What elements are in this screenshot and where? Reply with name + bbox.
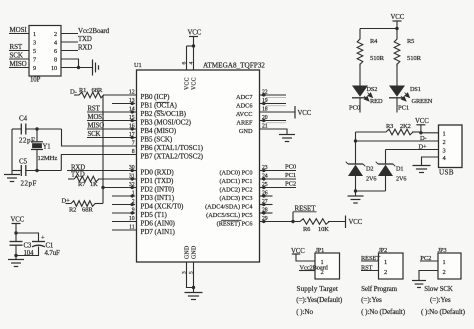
svg-text:GND: GND [192, 246, 198, 259]
svg-text:PC1: PC1 [398, 105, 409, 112]
junction caps ground [14, 254, 17, 257]
wire D+ to PD2 pin 32 [103, 187, 137, 189]
wire MOSI to PB3 pin 15 [87, 120, 137, 122]
svg-text:PD3 (INT1): PD3 (INT1) [141, 194, 175, 202]
wire SCK to J1 pin 7 [9, 58, 29, 60]
junction USB VCC [419, 131, 422, 134]
svg-text:5: 5 [33, 48, 36, 55]
ground at U1 pin 21 [279, 134, 295, 136]
pin stub AREF pin 20 [260, 120, 287, 122]
svg-text:Supply Target: Supply Target [297, 285, 338, 293]
junction U1 VCC pins [192, 44, 195, 47]
svg-text:RED: RED [370, 98, 383, 105]
pin stub PC5 pin 28 [260, 212, 273, 214]
junction VCC caps [14, 231, 17, 234]
svg-text:MISO: MISO [88, 123, 105, 130]
capacitor C3 104 [10, 241, 23, 243]
svg-text:1: 1 [443, 130, 446, 137]
wire AVCC pin 18 to VCC [260, 111, 296, 113]
svg-text:RESET: RESET [361, 255, 380, 262]
wire crystal top stem [36, 129, 38, 142]
svg-text:2V6: 2V6 [396, 176, 406, 183]
svg-text:510R: 510R [370, 55, 385, 62]
pin blobs U1 left PB [132, 102, 136, 106]
svg-text:RST: RST [88, 106, 101, 113]
resistor R3 2K2 [356, 131, 385, 133]
svg-text:SCK: SCK [88, 131, 101, 138]
svg-text:PB7 (XTAL2/TOSC2): PB7 (XTAL2/TOSC2) [141, 152, 204, 160]
svg-text:4.7uF: 4.7uF [45, 250, 60, 257]
wire to R4 [359, 29, 361, 38]
svg-text:PC2: PC2 [420, 255, 431, 262]
svg-text:(ADC4/SDA) PC4: (ADC4/SDA) PC4 [205, 203, 253, 210]
wire to C1 top [16, 233, 39, 242]
svg-text:Slow SCK: Slow SCK [424, 286, 453, 293]
svg-text:GREEN: GREEN [412, 98, 433, 105]
svg-text:R3: R3 [386, 123, 393, 130]
svg-text:4: 4 [54, 39, 57, 46]
wire GND pin 21 to ground [260, 129, 288, 135]
pin stub PD7 pin 11 [112, 229, 137, 231]
wire J1 pin 10 to ground [61, 67, 92, 69]
svg-text:AREF: AREF [236, 119, 253, 126]
svg-text:PD4 (XCK/T0): PD4 (XCK/T0) [141, 202, 184, 210]
svg-text:R6: R6 [303, 226, 310, 233]
svg-text:Vcc2Board: Vcc2Board [78, 27, 110, 35]
wire TXD from J1 pin 4 [61, 41, 78, 43]
svg-text:VCC: VCC [298, 110, 312, 117]
svg-text:GND: GND [239, 128, 253, 135]
svg-text:C4: C4 [19, 115, 28, 123]
wire R3 down to D- net [355, 132, 357, 141]
diode zener D1 2V6 [378, 163, 393, 165]
svg-text:VCC: VCC [192, 77, 198, 90]
wire C1 bottom to ground [16, 247, 39, 256]
svg-text:2: 2 [443, 269, 446, 276]
svg-text:12: 12 [129, 90, 135, 96]
wire XTAL2 to PB7 pin 8 [61, 155, 136, 171]
svg-text:( ):No (Default): ( ):No (Default) [361, 308, 406, 316]
svg-text:1: 1 [384, 259, 387, 266]
svg-text:PD1 (TXD): PD1 (TXD) [141, 177, 175, 185]
svg-text:VCC: VCC [415, 118, 429, 125]
svg-text:GND: GND [185, 246, 191, 259]
svg-text:PC2: PC2 [285, 181, 296, 188]
svg-text:DS2: DS2 [367, 86, 378, 93]
wire Vcc2Board from J1 pin 2 [61, 33, 78, 35]
wire USB pin1 VCC [421, 132, 439, 134]
svg-text:1: 1 [443, 259, 446, 266]
svg-text:ATMEGA8_TQFP32: ATMEGA8_TQFP32 [203, 62, 265, 70]
svg-text:ADC7: ADC7 [236, 94, 252, 101]
svg-text:7: 7 [33, 56, 36, 63]
svg-text:6: 6 [182, 62, 188, 65]
power VCC at AVCC [294, 106, 296, 119]
svg-text:( ):No (Default): ( ):No (Default) [421, 308, 466, 316]
ground at crystal caps [4, 174, 20, 176]
svg-text:JP1: JP1 [316, 247, 325, 254]
wire D2 bottom [355, 176, 357, 196]
svg-text:(ADC3) PC3: (ADC3) PC3 [219, 195, 252, 202]
svg-text:PB3 (MOSI/OC2): PB3 (MOSI/OC2) [141, 118, 192, 126]
svg-text:2V6: 2V6 [366, 176, 376, 183]
svg-text:22pF: 22pF [21, 179, 37, 187]
wire C3 bottom [15, 245, 17, 259]
svg-text:VCC: VCC [391, 14, 405, 21]
capacitor C1 4.7uF polarized [32, 241, 45, 243]
wire DS1 to PC1 [396, 98, 398, 113]
svg-text:2: 2 [443, 139, 446, 146]
wire RST to J1 pin 5 [9, 50, 29, 52]
resistor R5 510R [394, 37, 400, 66]
svg-text:R4: R4 [370, 38, 378, 45]
power VCC at R6 [345, 216, 347, 229]
diode zener D2 2V6 [348, 163, 363, 165]
svg-text:PD6 (AIN0): PD6 (AIN0) [141, 219, 176, 227]
svg-text:3: 3 [443, 147, 446, 154]
pin stub ADC7 pin 22 [260, 94, 287, 96]
wire D1 bottom [385, 176, 387, 191]
pin stub PD5 pin 9 [112, 212, 131, 214]
wire PC1 pin 24 [260, 178, 297, 180]
wire D+ down to zener D1 [385, 150, 387, 165]
svg-text:VCC: VCC [11, 217, 25, 224]
connector J1 10P box [29, 26, 61, 77]
svg-text:PB6 (XTAL1/TOSC1): PB6 (XTAL1/TOSC1) [141, 144, 204, 152]
capacitor C5 [20, 165, 22, 176]
svg-text:PB2 (SS/OC1B): PB2 (SS/OC1B) [141, 110, 187, 118]
overline OC1A on PB1 [156, 101, 170, 103]
wire crystal bottom stem [36, 150, 38, 171]
junction zener ground [354, 189, 357, 192]
wire R4 to DS2 [359, 64, 361, 86]
junction D- zener [354, 139, 357, 142]
svg-text:RST: RST [10, 43, 23, 51]
svg-text:R5: R5 [407, 38, 414, 45]
svg-text:9: 9 [33, 65, 36, 72]
svg-text:2K2: 2K2 [400, 123, 411, 130]
resistor R7 1K [68, 178, 72, 180]
junction RESET [291, 220, 294, 223]
wire RESET to JP2 pin1 [361, 260, 379, 262]
svg-text:Self Program: Self Program [361, 285, 398, 293]
wire Vcc2Board to JP1 pin2 [299, 270, 315, 272]
svg-text:1: 1 [33, 31, 36, 38]
svg-text:PD7 (AIN1): PD7 (AIN1) [141, 228, 176, 236]
svg-text:6: 6 [54, 48, 57, 55]
svg-text:68R: 68R [82, 206, 93, 213]
junction XTAL1-crystal [35, 127, 38, 130]
svg-text:D+: D+ [419, 143, 428, 150]
overline SS on PB2 [156, 110, 163, 112]
svg-text:JP2: JP2 [379, 247, 388, 254]
svg-text:PD2 (INT0): PD2 (INT0) [141, 185, 175, 193]
svg-text:PB5 (SCK): PB5 (SCK) [141, 135, 173, 143]
svg-text:JP3: JP3 [438, 247, 447, 254]
svg-text:U1: U1 [134, 62, 142, 69]
junction U1 GND pins [192, 286, 195, 289]
svg-text:10: 10 [51, 65, 57, 72]
wire PC2 to JP3 pin1 [420, 260, 438, 262]
svg-text:MISO: MISO [10, 60, 27, 68]
svg-text:PB0 (ICP): PB0 (ICP) [141, 93, 171, 101]
junction D+ bus at PD2 [101, 186, 104, 189]
wire RST to PB2 pin 14 [87, 111, 137, 113]
svg-text:4: 4 [189, 62, 195, 65]
svg-text:RXD: RXD [71, 164, 85, 171]
svg-text:R2: R2 [69, 206, 76, 213]
wire D+ to USB pin3 [386, 149, 439, 151]
wire U1 GND pin 3 [187, 262, 194, 288]
wire SCK to PB5 pin 17 [87, 137, 137, 139]
svg-text:SCK: SCK [10, 52, 23, 60]
connector JP3 box [438, 253, 461, 279]
svg-text:(=):Yes(Default): (=):Yes(Default) [296, 296, 343, 304]
svg-text:MOSI: MOSI [10, 26, 28, 34]
svg-text:10K: 10K [318, 226, 329, 233]
pin blobs U1 right [261, 93, 265, 97]
svg-text:RESET: RESET [295, 204, 317, 212]
svg-text:(ADC2) PC2: (ADC2) PC2 [219, 186, 252, 193]
svg-text:PC0: PC0 [285, 164, 297, 171]
svg-text:AVCC: AVCC [236, 111, 253, 118]
wire U1 GND pin 5 [193, 262, 195, 293]
svg-text:+: + [41, 234, 45, 241]
diode LED DS2 RED [352, 86, 368, 97]
svg-text:(RESET) PC6: (RESET) PC6 [217, 220, 253, 227]
pin stub PD4 pin 2 [112, 204, 131, 206]
wire R2 to D+ bus [95, 203, 104, 205]
wire to R5 [396, 29, 398, 38]
svg-text:DS1: DS1 [410, 86, 421, 93]
ground at JP3 [412, 280, 426, 282]
capacitor C4 [20, 124, 22, 135]
wire XTAL1 to PB6 pin 7 [62, 129, 137, 146]
svg-text:C1: C1 [46, 242, 54, 249]
resistor R6 10K [298, 219, 331, 225]
svg-text:PC1: PC1 [285, 172, 296, 179]
svg-text:TXD: TXD [78, 36, 92, 43]
wire U1 VCC pin 6 [186, 46, 188, 70]
resistor R2 68R [66, 203, 70, 205]
wire RXD from J1 pin 6 [61, 50, 78, 52]
svg-text:PD5 (T1): PD5 (T1) [141, 211, 168, 219]
resistor R4 510R [357, 37, 363, 66]
svg-text:PB4 (MISO): PB4 (MISO) [141, 127, 177, 135]
overline RESET on PC6 [221, 219, 242, 221]
wire MISO to PB4 pin 16 [87, 128, 137, 130]
svg-text:VCC: VCC [185, 77, 191, 90]
crystal Y1 [31, 141, 43, 143]
junction XTAL2-crystal [35, 169, 38, 172]
ground at USB shield [413, 165, 431, 167]
wire VCC to LED branches [360, 28, 397, 30]
pin blobs U1 left PD [132, 169, 136, 173]
connector JP2 box [379, 253, 404, 279]
svg-text:VCC: VCC [349, 219, 363, 226]
wire PC0 pin 23 [260, 170, 297, 172]
svg-text:10P: 10P [30, 77, 41, 84]
pin stub ADC6 pin 19 [260, 103, 287, 105]
wire R5 to DS1 [396, 64, 398, 86]
junction J1 pins 8-10 [77, 66, 80, 69]
connector JP1 box [315, 253, 340, 279]
pin stub PB1 pin 13 [112, 103, 131, 105]
svg-text:D2: D2 [366, 166, 373, 173]
wire RST to JP2 pin2 [361, 270, 379, 272]
wire MOSI to J1 pin 1 [9, 33, 29, 35]
svg-text:(ADC1) PC1: (ADC1) PC1 [219, 178, 252, 185]
wire J1 pin 8 to ground [61, 59, 79, 68]
wire D+ vertical bus [102, 95, 104, 204]
wire zener commons [356, 190, 386, 192]
connector USB box [439, 125, 463, 168]
svg-text:Y1: Y1 [43, 143, 51, 150]
svg-text:1K: 1K [90, 181, 98, 188]
svg-text:D1: D1 [396, 166, 403, 173]
svg-text:R7: R7 [78, 181, 86, 188]
svg-text:VCC: VCC [188, 30, 202, 37]
svg-text:PC0: PC0 [349, 105, 361, 112]
svg-text:MOSI: MOSI [88, 114, 105, 121]
svg-text:D-: D- [420, 135, 427, 142]
svg-text:PD0 (RXD): PD0 (RXD) [141, 168, 175, 176]
svg-text:12MHz: 12MHz [38, 155, 58, 162]
svg-text:ADC6: ADC6 [236, 102, 252, 109]
svg-text:USB: USB [439, 168, 454, 176]
ground at U1 bottom [185, 292, 203, 294]
svg-text:R1: R1 [79, 87, 86, 94]
svg-text:C5: C5 [19, 157, 28, 165]
svg-text:(=):Yes: (=):Yes [430, 296, 451, 304]
svg-text:RST: RST [361, 264, 373, 271]
wire DS2 to PC0 [359, 98, 361, 113]
wire R1 to PB0 pin 12 [103, 94, 137, 96]
wire RXD to PD0 pin 30 [67, 170, 137, 172]
svg-text:8: 8 [54, 56, 57, 63]
ground at C3 C1 [8, 259, 24, 261]
svg-text:510R: 510R [407, 55, 422, 62]
diode LED DS1 GREEN [389, 86, 405, 97]
svg-text:Vcc2Board: Vcc2Board [300, 264, 329, 271]
wire D- down to zener D2 [355, 141, 357, 164]
svg-text:2: 2 [54, 31, 57, 38]
junction LED VCC [395, 27, 398, 30]
wire U1 VCC pin 4 [193, 46, 195, 70]
svg-text:3: 3 [33, 39, 36, 46]
ground at J1 [92, 60, 94, 76]
wire R6 to VCC [328, 221, 346, 223]
svg-text:7: 7 [132, 141, 135, 147]
wire caps common to ground [11, 129, 13, 175]
wire USB pin4 to ground [422, 157, 439, 166]
wire XTAL2 net bottom [12, 170, 21, 172]
wire JP3 pin2 to ground [419, 271, 438, 281]
op IC U1 ATMEGA8 body [137, 70, 260, 262]
pin stub PD6 pin 10 [112, 221, 137, 223]
wire MISO to J1 pin 9 [9, 67, 29, 69]
svg-text:68R: 68R [92, 87, 103, 94]
ground at zeners [348, 195, 364, 197]
svg-text:8: 8 [132, 149, 135, 155]
svg-text:2: 2 [384, 269, 387, 276]
svg-text:(=):Yes: (=):Yes [361, 296, 382, 304]
svg-text:RXD: RXD [78, 45, 92, 52]
resistor R1 68R [74, 94, 77, 96]
svg-text:(ADC5/SCL) PC5: (ADC5/SCL) PC5 [206, 212, 252, 219]
pin stub PD3 pin 1 [112, 195, 131, 197]
wire XTAL1 net top [12, 128, 21, 130]
wire RESET pin 29 [260, 221, 299, 223]
pin stub PC4 pin 27 [260, 204, 273, 206]
wire D- to USB pin2 [356, 140, 439, 142]
pin stub PC3 pin 26 [260, 195, 273, 197]
wire PC2 pin 25 [260, 187, 297, 189]
svg-text:( ):No: ( ):No [296, 308, 313, 316]
svg-text:(ADC0) PC0: (ADC0) PC0 [219, 169, 252, 176]
svg-text:C3: C3 [24, 242, 32, 249]
